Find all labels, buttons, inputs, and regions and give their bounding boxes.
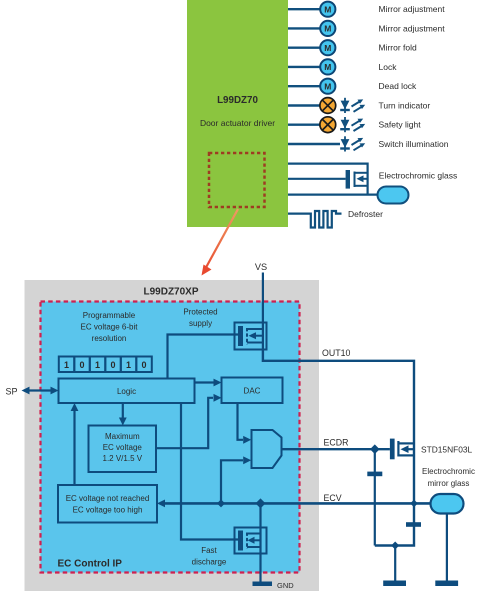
label Programmable EC voltage 6-bit resolution: [81, 311, 139, 343]
wire DAC to gate: [238, 403, 252, 444]
wire mirror glass to ground: [446, 514, 448, 581]
DAC box: [222, 378, 283, 404]
wire ECDR: [282, 448, 390, 450]
svg-text:Electrochromic glass: Electrochromic glass: [379, 170, 457, 180]
svg-text:Turn indicator: Turn indicator: [379, 101, 431, 111]
wire row1: [288, 8, 320, 10]
LED turn indicator: [340, 98, 365, 113]
EC control IP region (cyan): [41, 302, 300, 573]
junction ECV-output: [410, 500, 418, 508]
wire row4: [288, 66, 320, 68]
svg-text:M: M: [324, 81, 331, 91]
svg-text:M: M: [324, 43, 331, 53]
svg-text:Fast: Fast: [201, 546, 217, 555]
bidirectional arrow SP: [22, 387, 59, 395]
svg-text:Mirror adjustment: Mirror adjustment: [379, 23, 446, 33]
svg-text:supply: supply: [189, 319, 212, 328]
LED switch illumination: [340, 136, 365, 151]
wire row2: [288, 27, 320, 29]
lamp safety light: [320, 117, 336, 133]
svg-text:Maximum: Maximum: [105, 432, 140, 441]
svg-text:Logic: Logic: [117, 387, 136, 396]
wire row6: [288, 104, 320, 106]
MOSFET STD15NF03L: [390, 439, 414, 460]
wire Maximum box to DAC: [156, 394, 222, 448]
svg-text:0: 0: [141, 360, 146, 370]
Maximum EC voltage box: [89, 426, 157, 473]
ground rail: [383, 581, 406, 587]
MOSFET EC glass driver: [346, 170, 368, 189]
svg-text:Safety light: Safety light: [379, 120, 422, 130]
svg-text:Defroster: Defroster: [348, 209, 383, 219]
svg-text:ECV: ECV: [324, 493, 342, 503]
svg-text:Lock: Lock: [379, 62, 398, 72]
svg-text:ECDR: ECDR: [324, 437, 349, 447]
svg-text:1: 1: [64, 360, 69, 370]
EC glass element: [378, 187, 409, 204]
wire VS supply: [262, 273, 264, 323]
svg-text:Electrochromic: Electrochromic: [422, 467, 475, 476]
dashed IP boundary: [41, 302, 300, 573]
svg-text:EC voltage not reached: EC voltage not reached: [66, 494, 150, 503]
motor M1: [320, 2, 335, 17]
register bit boxes: [59, 357, 152, 373]
svg-text:M: M: [324, 24, 331, 34]
motor M4: [320, 59, 335, 74]
wire row8: [288, 143, 340, 145]
svg-text:1: 1: [95, 360, 100, 370]
module box L99DZ70XP: [25, 280, 320, 591]
lamp turn indicator: [320, 98, 336, 114]
wire capacitor branch: [374, 449, 376, 545]
wire row3: [288, 47, 320, 49]
EC mirror glass element: [431, 494, 464, 514]
svg-text:resolution: resolution: [92, 334, 127, 343]
junction ECV-discharge: [256, 498, 266, 508]
motor M5: [320, 79, 335, 94]
comparator gate: [252, 430, 282, 468]
svg-text:OUT10: OUT10: [322, 348, 350, 358]
ground GND: [253, 582, 273, 587]
svg-text:EC voltage: EC voltage: [103, 443, 143, 452]
svg-text:1.2 V/1.5 V: 1.2 V/1.5 V: [103, 454, 143, 463]
capacitor C1 plate: [367, 472, 382, 477]
svg-text:Switch illumination: Switch illumination: [379, 139, 449, 149]
wire OUT10: [263, 350, 414, 504]
svg-text:EC voltage too high: EC voltage too high: [73, 506, 143, 515]
svg-text:M: M: [324, 4, 331, 14]
wire ECV: [157, 500, 431, 508]
IC block L99DZ70: [187, 0, 288, 227]
svg-text:0: 0: [79, 360, 84, 370]
wire row7: [288, 123, 320, 125]
wire rail to ground: [394, 546, 396, 581]
heater defroster: [307, 211, 342, 228]
svg-text:DAC: DAC: [244, 386, 261, 395]
label Protected supply: [183, 308, 217, 329]
ground mirror glass: [435, 581, 458, 587]
arrow Logic to Maximum box: [119, 403, 127, 426]
svg-text:Dead lock: Dead lock: [379, 81, 418, 91]
svg-text:1: 1: [126, 360, 131, 370]
motor M2: [320, 21, 335, 36]
svg-text:Mirror fold: Mirror fold: [379, 43, 418, 53]
svg-text:Protected: Protected: [183, 308, 217, 317]
wire EC glass bottom line: [288, 194, 378, 196]
wire EC glass gate line: [288, 178, 346, 180]
svg-text:VS: VS: [255, 262, 267, 272]
svg-text:STD15NF03L: STD15NF03L: [421, 444, 473, 454]
junction bottom rail: [391, 542, 399, 550]
motor M3: [320, 40, 335, 55]
svg-text:M: M: [324, 62, 331, 72]
wire ECV sense to gate: [221, 456, 251, 503]
EC voltage monitor box: [58, 485, 157, 523]
svg-text:Door actuator driver: Door actuator driver: [200, 118, 275, 128]
junction ECDR-capacitor: [370, 444, 380, 454]
wire Logic to protected supply gate: [168, 335, 239, 379]
svg-text:L99DZ70XP: L99DZ70XP: [143, 287, 198, 298]
svg-text:EC voltage 6-bit: EC voltage 6-bit: [81, 323, 139, 332]
MOSFET protected supply: [235, 323, 267, 350]
MOSFET fast discharge: [235, 503, 267, 553]
arrow Logic to DAC: [195, 379, 222, 387]
zoom region dashed square: [209, 153, 265, 207]
wire bottom rail: [375, 503, 414, 545]
capacitor C2 plate: [406, 522, 421, 527]
Logic box: [59, 379, 195, 404]
LED safety light: [340, 117, 365, 132]
label Fast discharge: [192, 546, 227, 567]
svg-text:mirror glass: mirror glass: [428, 479, 470, 488]
svg-text:discharge: discharge: [192, 558, 227, 567]
svg-text:SP: SP: [6, 386, 18, 396]
svg-text:GND: GND: [277, 581, 294, 590]
svg-text:Mirror adjustment: Mirror adjustment: [379, 4, 446, 14]
zoom callout arrow: [202, 209, 239, 276]
arrow EC-monitor to Logic: [71, 403, 79, 485]
svg-text:EC Control IP: EC Control IP: [58, 559, 123, 570]
wire defroster: [288, 213, 307, 215]
svg-text:0: 0: [110, 360, 115, 370]
svg-text:Programmable: Programmable: [83, 311, 136, 320]
wire to GND: [259, 554, 261, 582]
svg-text:L99DZ70: L99DZ70: [217, 95, 258, 106]
wire Logic to fast discharge gate: [181, 403, 239, 540]
label Electrochromic mirror glass: [422, 467, 475, 488]
junction ECV-gate: [217, 499, 225, 507]
wire row5: [288, 85, 320, 87]
wire EC glass top line: [288, 164, 368, 195]
